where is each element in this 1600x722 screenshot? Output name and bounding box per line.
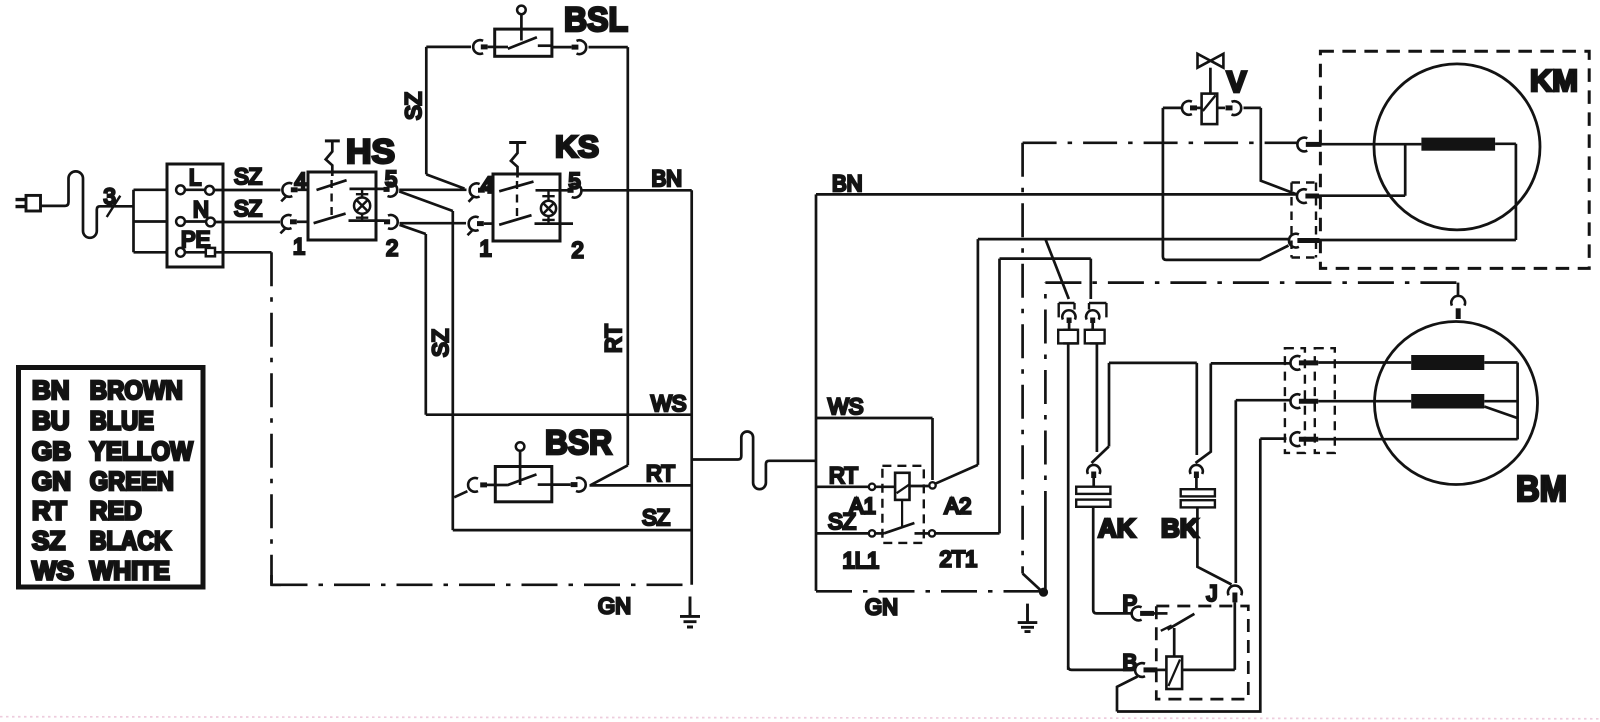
connector BM frame hook [1451,296,1465,319]
svg-text:BK: BK [1161,513,1199,543]
svg-text:SZ: SZ [642,505,670,530]
heater KM element [1421,138,1495,151]
wire SZ row [453,529,692,532]
svg-text:SZ: SZ [401,92,426,120]
switch KS actuator [509,143,526,218]
wire BM aux winding [1318,400,1517,403]
wire BSL right down to BN [589,47,628,465]
switch KS contact 4-5 [499,182,567,192]
wire V right to pin [1244,108,1298,195]
wire HS2 diagonal to SZ drop [400,225,426,234]
wire BN down left bus [690,190,693,585]
svg-text:WS: WS [828,394,863,419]
svg-text:BROWN: BROWN [90,375,183,405]
connector J [1228,586,1242,603]
svg-text:L: L [189,165,201,190]
connector suppressor2 [1085,303,1107,343]
terminal block L/N/PE [167,164,223,267]
wire KM heater feed [1322,143,1422,146]
svg-text:HS: HS [346,133,395,171]
svg-text:P: P [1123,591,1138,616]
connector X2 housing dashed [1292,183,1317,258]
wire mains cord [41,171,134,237]
relay K1 terminal A1 [869,484,875,490]
svg-text:V: V [1227,66,1247,99]
wire KM BN feed [1319,144,1405,196]
svg-text:KS: KS [555,129,599,164]
svg-text:J: J [1207,581,1218,606]
svg-text:BSL: BSL [564,1,628,39]
node PE junction [1039,588,1048,597]
connector HS pin1 [280,215,308,233]
valve V symbol [1198,54,1224,124]
connector V right [1217,101,1241,115]
svg-text:GREEN: GREEN [90,466,174,496]
connector KS pin5 [568,184,582,198]
relay contact P [1161,614,1195,657]
relay K1 coil [875,473,929,500]
svg-text:2T1: 2T1 [940,547,978,572]
motor BM circle [1375,322,1538,485]
svg-text:GN: GN [598,594,631,619]
wire pin3 loop [1117,439,1287,712]
svg-text:4: 4 [295,169,307,194]
svg-text:RT: RT [601,324,626,353]
svg-text:5: 5 [385,167,397,192]
wire BSL left SZ [426,47,471,174]
wire GN dash-dot row [272,583,692,586]
wire V left loop [1163,108,1289,260]
wire pin2 drop to J [1236,400,1290,583]
connector X2 pin A2 [1289,234,1320,248]
svg-text:1: 1 [480,236,492,261]
svg-text:BM: BM [1516,468,1567,509]
scan artifact bottom line [0,717,1600,719]
enclosure KM dashed box [1320,51,1589,268]
switch HS actuator [325,141,340,216]
connector HS pin5 [384,183,398,197]
svg-text:WS: WS [651,391,686,416]
wire row to BM pin1 [1211,362,1290,365]
wire BM tap diagonal [1484,407,1517,419]
svg-text:PE: PE [181,227,210,252]
svg-text:1: 1 [293,234,305,259]
svg-text:GB: GB [32,436,71,466]
connector KM heater pin [1297,138,1321,152]
wire 2T1 up [935,259,999,534]
wire PE dash-dot vertical right [1021,143,1024,574]
wire frame dash-dot up from junction [1044,525,1047,592]
connector X3 pin2 [1290,394,1318,408]
svg-text:SZ: SZ [428,329,453,357]
wire AK-BK top row [1109,362,1197,365]
wire PE [215,251,272,254]
wire 2T1 row [1000,259,1091,299]
svg-text:A2: A2 [945,494,972,519]
connector HS pin4 [281,183,308,201]
svg-text:2: 2 [386,236,398,261]
wire suppressor1 down to B [1067,343,1070,670]
svg-text:1L1: 1L1 [843,548,880,573]
svg-text:B: B [1123,650,1138,675]
wire L to HS (SZ) [214,189,281,192]
connector KS pin4 [469,183,494,201]
switch BSL contact [495,37,552,49]
wire BSL diagonal to KS4 [426,174,464,188]
connector BSR left [454,478,495,497]
winding BM main [1411,355,1484,370]
wire B row [1068,667,1134,670]
svg-text:BU: BU [32,405,70,435]
svg-text:BSR: BSR [545,424,612,462]
svg-text:4: 4 [481,173,493,198]
svg-text:RT: RT [32,496,67,526]
connector V left [1182,101,1202,115]
winding BM aux [1411,394,1484,409]
wire BM main winding [1318,363,1517,440]
wire frame dash-dot row to BM [1045,281,1458,284]
svg-text:BN: BN [832,171,863,196]
svg-text:BN: BN [652,166,683,191]
switch BSL box [495,29,552,56]
svg-text:WS: WS [32,555,74,585]
switch lever RT to BSR [591,465,628,485]
wire HS2 to KS1 [400,222,467,225]
wire N to HS (SZ) [215,221,280,224]
connector HS pin2 [384,215,398,229]
connector X3 housing dashed [1285,348,1335,453]
wire suppressor2 down to AK [1096,343,1099,452]
svg-text:RT: RT [646,461,675,486]
wire branch to terminal block [134,190,168,253]
relay K1 terminal 2T1 [929,530,935,536]
connector KS pin1 [468,217,494,235]
wire RT row right [816,485,869,488]
switch HS contact 1-2 [314,214,384,224]
relay K1 link [901,500,903,528]
svg-text:AK: AK [1098,513,1136,543]
svg-text:2: 2 [572,238,584,263]
wire BN row right [816,193,1297,196]
switch HS box [308,172,376,240]
connector X3 pin1 [1290,356,1318,370]
wire RT drop vertical [451,211,454,530]
connector BSL right [552,40,586,54]
capacitor AK [1076,363,1110,610]
wire A2 diagonal to suppressor1 [1045,239,1068,299]
connector X3 pin3 [1290,432,1318,446]
wire WS row [426,413,692,416]
svg-text:SZ: SZ [234,164,262,189]
svg-text:N: N [193,197,209,222]
relay K1 terminal A2 [929,482,935,488]
svg-text:BN: BN [32,375,70,405]
wire frame drop to BM [1457,283,1460,297]
mains plug X1 [16,195,41,211]
connector BSL left [473,40,495,54]
ground symbol left [680,597,700,628]
connector X2 pin BN [1297,189,1319,203]
wire HS5 to KS4 [399,188,466,191]
ground symbol right [1018,604,1038,632]
svg-text:SZ: SZ [234,196,262,221]
svg-text:RT: RT [829,463,858,488]
svg-text:BLUE: BLUE [90,405,154,435]
switch KS contact 1-2 [499,215,573,225]
wire interconnect cord stub [692,432,816,490]
wire KM right leg [1320,144,1516,240]
connector B [1135,663,1166,677]
switch BSR actuator [516,442,525,485]
wire BN from KS5 [581,189,692,192]
enclosure start relay dashed [1156,606,1248,699]
switch HS contact 4-5 [317,180,385,190]
label 3-core marker [104,184,121,217]
relay K1 enclosure dashed [882,466,923,543]
wire RT row [590,484,692,487]
relay coil start [1166,657,1182,690]
connector suppressor1 [1058,303,1078,343]
svg-text:A1: A1 [849,494,876,519]
svg-text:KM: KM [1530,63,1578,98]
wire PE dash-dot to KM [1023,141,1298,144]
connector BSR right [552,478,586,492]
svg-text:GN: GN [865,595,898,620]
svg-text:5: 5 [569,169,581,194]
wire WS row right [816,418,933,480]
lamp HS [354,189,370,222]
switch BSR box [495,467,552,502]
relay K1 contact [875,523,929,533]
svg-text:SZ: SZ [32,525,65,555]
wire A2 row to V connector [978,238,1290,241]
wire SZ drop vertical [424,234,427,415]
wire right bus vertical [815,194,818,591]
svg-text:GN: GN [32,466,71,496]
svg-text:YELLOW: YELLOW [90,436,193,466]
switch BSR contact [495,474,552,485]
wire SZ row right [816,532,869,535]
svg-text:RED: RED [90,496,142,526]
legend colour code box [19,368,204,588]
svg-text:WHITE: WHITE [90,555,170,585]
switch BSL actuator [517,6,526,41]
wire J to relay [1182,602,1235,670]
wire A2 diagonal up [935,239,978,484]
relay K1 terminal 1L1 [869,530,875,536]
motor KM circle [1374,64,1540,230]
lamp KS [541,190,556,223]
svg-text:BLACK: BLACK [90,525,171,555]
wire HS5 diagonal to RT drop [399,191,453,211]
wire P row [1093,610,1131,613]
wire PE green dash-dot down [270,252,273,585]
switch KS box [493,174,560,241]
capacitor BK [1181,363,1232,585]
wire GN row right dash-dot [816,590,1040,593]
connector P [1132,607,1168,621]
wire BM pin3 row [1318,438,1517,441]
